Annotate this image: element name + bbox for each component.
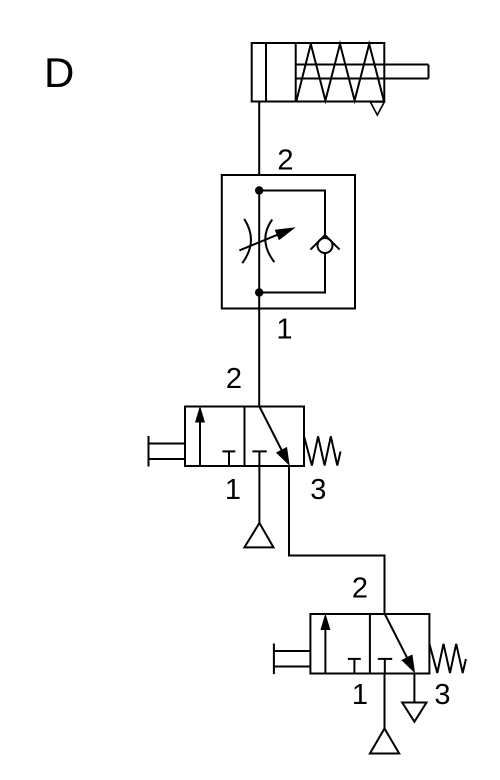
- svg-text:D: D: [44, 49, 74, 96]
- cylinder vent triangle: [370, 102, 384, 115]
- cylinder piston: [266, 43, 296, 102]
- valve 1 left square flow arrow: [196, 408, 205, 467]
- cylinder piston rod: [296, 65, 429, 79]
- valve 1 manual actuator: [149, 436, 186, 467]
- svg-text:2: 2: [277, 145, 293, 177]
- node junction top: [255, 186, 263, 194]
- valve 1 right square blocked port 1: [252, 451, 266, 466]
- valve 2 supply source triangle: [370, 729, 399, 754]
- wire valve 2 port 3 to exhaust: [413, 674, 415, 703]
- svg-text:1: 1: [276, 314, 292, 346]
- check valve branch wire: [259, 191, 325, 293]
- throttle adjustment arrow: [239, 228, 294, 250]
- svg-text:2: 2: [352, 573, 368, 605]
- valve 2 exhaust triangle: [402, 703, 426, 722]
- cylinder body: [252, 43, 385, 102]
- valve 2 manual actuator: [274, 644, 311, 675]
- svg-text:1: 1: [225, 474, 241, 506]
- valve 1 passage port 2 to port 3: [259, 407, 289, 465]
- node junction bottom: [255, 288, 263, 296]
- wire valve 1 port 3 to valve 2 port 2: [289, 466, 385, 614]
- cylinder return spring: [297, 44, 384, 101]
- wire throttle branch: [258, 191, 260, 293]
- valve 2 passage port 2 to port 3: [385, 614, 415, 672]
- valve 2 body: [310, 614, 429, 674]
- valve 1 body: [185, 407, 304, 467]
- check valve seat: [311, 235, 340, 250]
- valve 2 left square blocked port: [348, 659, 361, 674]
- valve 2 right square blocked port 1: [378, 659, 392, 674]
- valve 1 supply source triangle: [244, 523, 273, 547]
- svg-text:3: 3: [310, 474, 326, 506]
- svg-text:2: 2: [226, 363, 242, 395]
- wire valve 1 port 1 to supply: [258, 466, 260, 523]
- wire flow control port 1 to valve 1 port 2: [258, 293, 260, 408]
- valve 2 return spring: [429, 644, 466, 673]
- svg-text:3: 3: [434, 679, 450, 711]
- wire valve 2 port 1 to supply: [384, 674, 386, 729]
- throttle restriction arcs: [242, 219, 274, 263]
- flow control valve enclosure: [222, 175, 355, 309]
- svg-text:1: 1: [352, 679, 368, 711]
- valve 1 left square blocked port: [222, 451, 235, 466]
- check valve ball: [318, 238, 333, 253]
- wire cylinder port to flow control port 2: [258, 102, 260, 177]
- valve 2 left square flow arrow: [321, 615, 330, 674]
- valve 1 return spring: [304, 436, 341, 465]
